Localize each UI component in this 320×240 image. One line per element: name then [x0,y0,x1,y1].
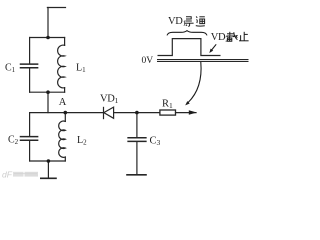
svg-text:0V: 0V [142,56,154,66]
svg-text:A: A [59,97,67,108]
waveform axis double line [157,60,249,62]
arrow VD2 pointer [209,44,216,53]
svg-text:dF: dF [2,170,13,180]
wire tank1 bottom [30,91,65,93]
hanzi 导 [184,17,193,26]
svg-text:L1: L1 [76,62,86,74]
wire tank1 left upper [29,38,31,64]
hanzi 截 [226,32,237,41]
wire tank1 top [30,37,65,39]
svg-text:C2: C2 [8,135,19,147]
wire R1 to output [176,112,197,114]
node dot ground junction [47,159,51,163]
capacitor C1 [21,64,38,68]
capacitor C2 [21,137,38,141]
inductor L2 [59,121,66,157]
wire tank2 right lower [64,157,66,161]
svg-text:VD2: VD2 [211,32,230,44]
wire tank1 left lower [29,68,31,92]
wire node A horizontal [30,112,104,114]
arrow waveform to output [185,62,201,105]
svg-text:L2: L2 [77,135,87,147]
wire ground lead [47,161,49,178]
node dot C3 junction [135,111,139,115]
hanzi 止 [239,32,249,41]
node dot A line [64,111,68,115]
wire tank2 left lower [29,141,31,161]
resistor R1 [160,110,176,115]
svg-text:VD1: VD1 [168,16,187,27]
wire tank2 right upper [64,113,66,122]
svg-text:C1: C1 [5,63,16,75]
node dot tank1 bottom [46,90,50,94]
brace over pulse [167,31,207,36]
watermark [2,170,38,180]
wire top feed horizontal [47,7,65,9]
wire tank2 left upper [29,113,31,136]
inductor L1 [58,45,65,88]
svg-text:C3: C3 [150,136,161,148]
wire top feed vertical [47,8,49,38]
output arrowhead [189,110,197,114]
waveform pulse trace [158,39,221,56]
svg-text:VD1: VD1 [100,93,119,105]
wire between tanks [47,92,49,112]
ground bar C3 [127,174,146,176]
capacitor C3 [128,138,146,142]
svg-text:R1: R1 [162,99,173,111]
hanzi 通 [196,16,205,26]
ground bar [41,177,56,179]
diode VD1 [104,107,114,119]
wire diode to R1 [114,112,160,114]
wire tank1 right lower [64,88,66,93]
wire tank2 bottom [30,160,66,162]
capacitor C3 lead upper [136,113,138,138]
capacitor C3 lead lower [136,142,138,174]
node dot tank1 top [46,36,50,40]
wire tank1 right upper [64,38,66,46]
